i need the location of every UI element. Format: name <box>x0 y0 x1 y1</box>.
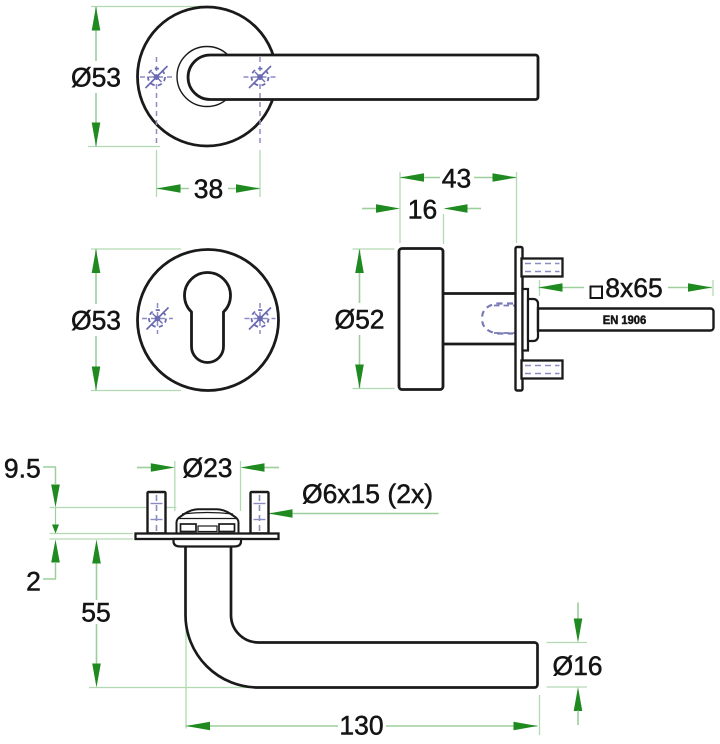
dimension line 38 <box>157 188 190 190</box>
svg-text:Ø53: Ø53 <box>71 306 121 336</box>
dimension Ø16 lower line <box>577 711 579 726</box>
centerlines right screw cyl <box>259 303 261 334</box>
extension line 130 right <box>539 695 541 735</box>
extension line bottom of Ø53 rose <box>88 146 160 148</box>
reference line plate bottom <box>50 538 134 540</box>
svg-text:43: 43 <box>442 164 471 194</box>
svg-text:Ø52: Ø52 <box>334 305 384 335</box>
square symbol 8x65 <box>591 287 603 299</box>
dimension line Ø53 cyl lower <box>95 336 97 391</box>
dimension line 55 upper <box>96 562 98 600</box>
dimension line Ø53 upper segment <box>95 7 97 62</box>
leader 2 <box>43 578 56 580</box>
hub step behind plate <box>523 289 529 351</box>
dimension line Ø52 lower <box>359 335 361 389</box>
screw symbol cyl left <box>147 308 169 330</box>
rose side view <box>399 249 443 390</box>
arrow 9.5 down <box>51 485 60 508</box>
centerline left screw <box>156 57 158 146</box>
extension line Ø23 left <box>174 461 176 511</box>
bottom fixing screw side <box>522 361 563 379</box>
leader line Ø6x15 <box>269 513 439 515</box>
extension line 16 right <box>443 214 445 244</box>
extension line bottom of cyl rose <box>91 390 181 392</box>
leader 9.5 <box>43 466 56 468</box>
bottom screw thread dashes <box>525 365 560 367</box>
reference line lever bottom <box>89 687 251 689</box>
arrow Ø52 up <box>355 249 364 273</box>
dimension line 43 <box>400 177 440 179</box>
extension line 130 left <box>185 616 187 729</box>
spring cassette hub <box>177 509 239 533</box>
lever bar top view <box>188 55 538 100</box>
lever handle side profile <box>186 547 538 688</box>
hub inner line 1 <box>182 513 233 515</box>
dimension Ø16 upper line <box>577 603 579 621</box>
extension line 8x65 left <box>539 280 541 296</box>
arrow Ø53 cyl down <box>92 367 101 391</box>
dimension line 8x65 <box>539 287 585 289</box>
dimension line Ø53 lower segment <box>95 93 97 147</box>
arrow 130 left <box>186 722 210 731</box>
screw symbol left <box>146 66 168 88</box>
svg-text:EN 1906: EN 1906 <box>603 313 647 327</box>
extension line 43 right <box>516 172 518 243</box>
right screw dashes <box>259 495 261 531</box>
dimension line Ø52 upper <box>359 249 361 303</box>
arrow plate top small <box>52 525 59 534</box>
hub right foot <box>219 524 235 532</box>
svg-text:8x65: 8x65 <box>605 273 662 303</box>
arrow Ø52 down <box>355 365 364 389</box>
extension line Ø52 bottom <box>353 388 395 390</box>
svg-text:9.5: 9.5 <box>4 454 41 484</box>
arrow 16 left outside <box>376 204 400 213</box>
hidden spring cassette dashed <box>482 304 513 334</box>
arrow 130 right <box>514 722 538 731</box>
hub inner line 2 <box>179 518 237 520</box>
arrow 55 down <box>92 664 101 688</box>
dimension line Ø23 tails <box>137 467 152 469</box>
extension tick Ø16 top <box>547 642 588 644</box>
left fixing screw bottom view <box>148 492 166 534</box>
top fixing screw side <box>522 259 563 277</box>
arrow Ø53 up <box>92 7 101 31</box>
extension line top of Ø53 rose <box>91 6 205 8</box>
spindle bar <box>538 309 714 331</box>
arrow Ø53 cyl up <box>92 249 101 273</box>
svg-text:16: 16 <box>408 195 437 225</box>
extension line 43 left <box>399 172 401 243</box>
rose inner circle <box>177 47 237 107</box>
neck side view <box>443 294 516 345</box>
svg-text:Ø23: Ø23 <box>182 453 232 483</box>
extension line 8x65 right <box>712 280 714 296</box>
dimension 9.5 line <box>55 467 57 484</box>
top screw thread dashes <box>525 263 560 265</box>
reference line plate top <box>50 533 134 535</box>
centerlines left screw cyl <box>157 303 159 334</box>
dimension line 16 tails <box>362 208 378 210</box>
dimension line 130 <box>186 725 338 727</box>
arrow Ø23 right outside <box>241 463 265 472</box>
svg-text:Ø6x15 (2x): Ø6x15 (2x) <box>302 479 433 509</box>
arrow Ø53 down <box>92 123 101 147</box>
extension line Ø23 right <box>240 461 242 511</box>
extension line Ø52 top <box>353 248 395 250</box>
dimension line 55 lower <box>96 624 98 664</box>
svg-text:Ø16: Ø16 <box>552 651 602 681</box>
dimension 2 line <box>55 563 57 579</box>
svg-text:2: 2 <box>26 567 41 597</box>
arrow 16 right outside <box>444 204 468 213</box>
screw symbol cyl right <box>249 308 271 330</box>
svg-text:Ø53: Ø53 <box>71 63 121 93</box>
mounting plate side view <box>516 247 523 391</box>
extension lines 38 <box>156 150 158 197</box>
arrow 38 right <box>236 184 260 193</box>
extension tick Ø16 bottom <box>547 686 588 688</box>
arrow 55 up <box>92 540 101 564</box>
euro profile keyhole <box>185 272 231 362</box>
arrow 43 right <box>493 173 517 182</box>
arrow Ø16 down <box>574 619 583 643</box>
svg-text:130: 130 <box>339 711 383 741</box>
arrow 43 left <box>400 173 424 182</box>
right fixing screw bottom view <box>251 492 269 534</box>
left screw dashes <box>156 495 158 531</box>
screw symbol right <box>249 66 271 88</box>
hub center detail <box>198 526 217 532</box>
arrow Ø23 left outside <box>151 463 175 472</box>
arrow Ø16 up <box>574 687 583 711</box>
neck flange <box>174 539 242 547</box>
hub left foot <box>181 524 197 532</box>
arrow 2 up <box>51 540 60 563</box>
svg-text:55: 55 <box>81 598 110 628</box>
reference line hub top <box>50 507 177 509</box>
dimension line Ø53 cyl upper <box>95 249 97 304</box>
svg-text:38: 38 <box>194 174 223 204</box>
cylinder rose circle <box>138 250 279 391</box>
hub collar <box>528 299 538 341</box>
hidden lines through plate <box>494 305 535 307</box>
base plate bottom view <box>136 534 279 540</box>
rose front circle <box>138 7 277 146</box>
arrow Ø6x15 leader <box>269 509 293 518</box>
arrow 8x65 left <box>539 283 563 292</box>
extension line top of cyl rose <box>91 248 181 250</box>
arrow 8x65 right <box>688 283 712 292</box>
arrow 38 left <box>157 184 181 193</box>
centerline right screw <box>259 57 261 146</box>
